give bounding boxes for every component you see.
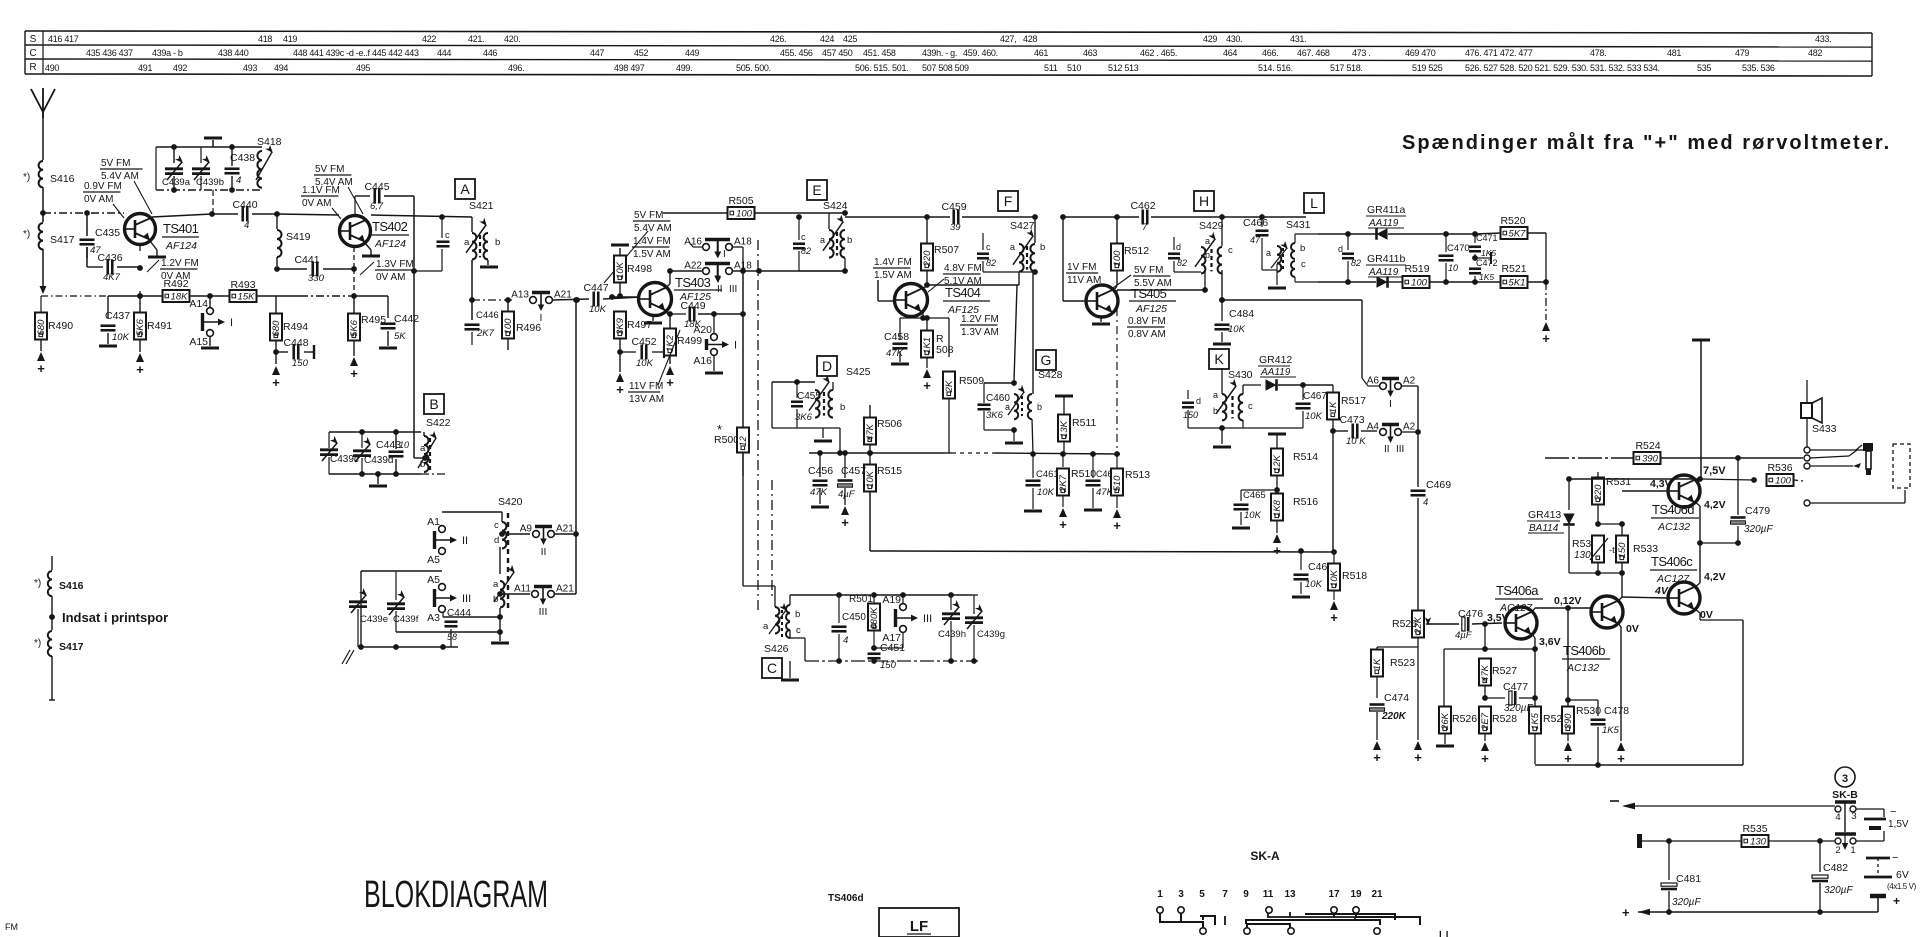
ground below C474 xyxy=(1373,741,1381,750)
svg-text:A6: A6 xyxy=(1367,376,1380,387)
svg-text:0V: 0V xyxy=(1700,609,1713,621)
wire S425 secondary to TS404 path xyxy=(832,382,834,390)
svg-text:R505: R505 xyxy=(728,195,753,207)
svg-text:C439h: C439h xyxy=(938,629,966,640)
capacitor C481 electrolytic xyxy=(1668,841,1670,880)
C460 loop bottom xyxy=(984,429,1014,431)
svg-text:AA119: AA119 xyxy=(1368,218,1399,229)
jack contact mid xyxy=(1804,455,1810,461)
wire F to TS405 base xyxy=(1062,217,1064,301)
node R495 top xyxy=(351,293,357,299)
box C xyxy=(762,658,782,678)
resistor R516 xyxy=(1271,494,1283,521)
svg-text:TS402: TS402 xyxy=(372,219,408,234)
capacitor C444 xyxy=(442,612,444,617)
svg-text:517 518.: 517 518. xyxy=(1330,63,1363,73)
capacitor C482 electrolytic xyxy=(1819,841,1821,872)
svg-text:R506: R506 xyxy=(877,418,902,430)
resistor R526 xyxy=(1439,707,1451,734)
svg-text:A21: A21 xyxy=(556,524,574,535)
ground below TS406b emitter xyxy=(1617,742,1625,751)
svg-text:C472: C472 xyxy=(1476,258,1498,268)
svg-text:496.: 496. xyxy=(508,63,524,73)
svg-text:a: a xyxy=(763,621,769,632)
resistor R507 xyxy=(926,217,928,243)
svg-text:c: c xyxy=(796,625,801,636)
node C449 out xyxy=(711,311,717,317)
svg-text:1: 1 xyxy=(1157,889,1163,900)
node TS403 emitter branch xyxy=(664,312,670,314)
svg-text:429: 429 xyxy=(1203,34,1217,44)
svg-text:A21: A21 xyxy=(556,584,574,595)
resistor R521 xyxy=(1501,276,1528,288)
transistor TS403 xyxy=(639,283,672,316)
box K xyxy=(1209,349,1229,369)
power rail top bar xyxy=(1692,339,1710,342)
svg-text:S425: S425 xyxy=(846,366,871,378)
capacitor C469 xyxy=(1417,432,1419,487)
switch SK-B bar upper xyxy=(1835,800,1856,803)
svg-text:C484: C484 xyxy=(1229,308,1254,320)
svg-text:2K7: 2K7 xyxy=(476,328,495,339)
svg-text:4K7: 4K7 xyxy=(103,272,121,283)
transformer S431 xyxy=(1277,246,1281,272)
resistor R509 xyxy=(948,318,950,357)
transformer S429 xyxy=(1201,247,1205,273)
svg-text:C457: C457 xyxy=(841,465,866,477)
svg-text:a: a xyxy=(820,235,825,245)
svg-text:c: c xyxy=(1228,245,1233,256)
svg-text:3,6V: 3,6V xyxy=(1539,636,1561,648)
svg-text:47K: 47K xyxy=(886,348,904,359)
svg-text:2E7: 2E7 xyxy=(1480,712,1491,731)
svg-text:b: b xyxy=(1037,402,1042,412)
svg-text:A13: A13 xyxy=(511,290,529,301)
svg-text:4µF: 4µF xyxy=(838,489,856,500)
box G xyxy=(1036,350,1056,370)
svg-text:C449: C449 xyxy=(680,300,705,312)
resistor R528 xyxy=(1479,707,1491,734)
svg-text:+: + xyxy=(1273,543,1281,558)
svg-text:100: 100 xyxy=(503,318,514,335)
svg-text:A22: A22 xyxy=(684,261,702,272)
svg-text:5: 5 xyxy=(1199,889,1205,900)
svg-text:0.8V AM: 0.8V AM xyxy=(1128,329,1166,340)
coil S416 sidebar xyxy=(51,556,53,570)
wire F rail to TS404 xyxy=(877,240,879,301)
svg-text:47K: 47K xyxy=(1480,664,1491,682)
wire R490 to bias line xyxy=(41,295,108,297)
wire A1 to S420 c xyxy=(442,511,502,513)
box B xyxy=(424,394,444,414)
svg-text:b: b xyxy=(847,235,852,246)
transistor TS406c xyxy=(1668,582,1700,614)
variable capacitor C439e xyxy=(357,571,359,598)
svg-text:220: 220 xyxy=(1593,484,1604,502)
capacitor C460 xyxy=(983,383,985,403)
svg-text:507 508 509: 507 508 509 xyxy=(922,63,969,73)
svg-text:448 441 439c -d -e..f 445 442: 448 441 439c -d -e..f 445 442 443 xyxy=(293,48,419,58)
box D xyxy=(817,356,837,376)
svg-text:+: + xyxy=(923,378,931,393)
wire S421 to A13 switch xyxy=(472,299,515,301)
svg-text:4: 4 xyxy=(1423,497,1428,508)
svg-text:R518: R518 xyxy=(1342,570,1367,582)
capacitor C443 xyxy=(395,432,397,449)
switch A6 A2 xyxy=(1380,383,1387,390)
svg-text:AA119: AA119 xyxy=(1260,367,1291,378)
svg-text:C478: C478 xyxy=(1604,705,1629,717)
svg-text:c: c xyxy=(986,242,991,252)
capacitor C464 d xyxy=(1173,237,1175,250)
transistor TS406a xyxy=(1505,607,1537,639)
svg-text:A18: A18 xyxy=(734,237,752,248)
svg-text:479: 479 xyxy=(1735,48,1749,58)
wire H transformer stub xyxy=(1200,217,1202,246)
svg-text:+: + xyxy=(1330,610,1338,625)
svg-text:c: c xyxy=(1301,259,1306,270)
S431 wiring xyxy=(1261,256,1263,270)
resistor R536 xyxy=(1700,479,1712,480)
svg-text:+: + xyxy=(272,375,280,390)
resistor R513 xyxy=(1111,469,1123,496)
capacitor C465 xyxy=(1241,489,1277,491)
svg-text:15K: 15K xyxy=(238,291,256,302)
wire S418 group to TS401 collector xyxy=(212,190,214,214)
svg-text:I: I xyxy=(1389,398,1392,410)
wire TS404 base from C459 xyxy=(877,240,879,280)
capacitor C452 xyxy=(620,351,636,353)
svg-text:82: 82 xyxy=(1177,258,1187,268)
node E bottom to divider xyxy=(733,270,845,272)
svg-text:11V FM: 11V FM xyxy=(629,381,663,392)
tuned circuit C460 top xyxy=(984,382,1014,384)
svg-text:S428: S428 xyxy=(1038,369,1063,381)
svg-text:R525: R525 xyxy=(1392,618,1417,630)
svg-text:10K: 10K xyxy=(1305,579,1323,590)
svg-text:a: a xyxy=(1266,248,1271,258)
capacitor C484 xyxy=(1221,300,1223,320)
svg-text:5V FM: 5V FM xyxy=(1134,265,1163,276)
wire S427 b down to S428 b xyxy=(1032,272,1034,394)
svg-text:C440: C440 xyxy=(232,199,257,211)
wire to C444 A3 column xyxy=(443,616,500,618)
svg-text:C481: C481 xyxy=(1676,873,1701,885)
svg-text:418: 418 xyxy=(258,34,272,44)
svg-text:a: a xyxy=(1213,390,1218,400)
wire D to R506 rail xyxy=(839,428,841,453)
ground below R497 xyxy=(619,352,621,372)
svg-text:GR412: GR412 xyxy=(1259,354,1292,366)
ground below R525 xyxy=(1414,741,1422,750)
S430 bottom xyxy=(1188,427,1243,429)
ground TS401 emitter xyxy=(150,241,157,250)
svg-text:+: + xyxy=(37,361,45,376)
svg-text:A5: A5 xyxy=(427,554,440,566)
svg-text:TS401: TS401 xyxy=(163,221,199,236)
wire rail up to bias line xyxy=(575,300,577,534)
svg-text:1K8: 1K8 xyxy=(1272,499,1283,517)
svg-text:12K: 12K xyxy=(1272,454,1283,472)
svg-text:512 513: 512 513 xyxy=(1108,63,1139,73)
svg-text:A: A xyxy=(460,181,470,197)
svg-text:10K: 10K xyxy=(1037,487,1055,498)
variable capacitor C439d xyxy=(361,432,363,448)
svg-text:TS406a: TS406a xyxy=(1496,583,1539,598)
wire R514 bus xyxy=(1332,431,1334,552)
capacitor C462 xyxy=(1141,210,1144,225)
svg-text:0.9V FM: 0.9V FM xyxy=(84,181,122,192)
wire C445 branch xyxy=(354,196,356,215)
svg-text:C436: C436 xyxy=(97,252,122,264)
resistor R499 xyxy=(669,314,671,329)
capacitor C458 xyxy=(899,318,901,340)
svg-text:R527: R527 xyxy=(1492,665,1517,677)
svg-text:S418: S418 xyxy=(257,136,282,148)
svg-text:+: + xyxy=(1481,751,1489,766)
svg-text:R507: R507 xyxy=(934,244,959,256)
S425 bottom xyxy=(772,427,840,429)
capacitor C463 xyxy=(1092,454,1094,478)
svg-text:1.5V AM: 1.5V AM xyxy=(874,270,912,281)
jack springs xyxy=(1810,449,1872,451)
node S420 tap to A9 xyxy=(499,531,505,537)
resistor R505 xyxy=(728,207,755,219)
svg-text:C461: C461 xyxy=(1036,469,1059,480)
wire F cap link xyxy=(982,233,984,237)
wire C435 to C436 xyxy=(86,247,88,267)
svg-text:490: 490 xyxy=(45,63,59,73)
svg-text:SK-B: SK-B xyxy=(1832,789,1858,801)
node C447 left xyxy=(574,297,580,303)
svg-text:AC127: AC127 xyxy=(1499,602,1533,614)
svg-text:449: 449 xyxy=(685,48,699,58)
svg-text:466.: 466. xyxy=(1262,48,1278,58)
wire S420c tap to A9 switch xyxy=(506,533,530,535)
svg-text:A2: A2 xyxy=(1403,422,1416,433)
svg-text:A2: A2 xyxy=(1403,376,1416,387)
svg-text:R535: R535 xyxy=(1742,823,1767,835)
svg-text:473 .: 473 . xyxy=(1352,48,1371,58)
svg-text:b: b xyxy=(1205,250,1210,260)
svg-text:526. 527 528. 520 521. 529. 53: 526. 527 528. 520 521. 529. 530. xyxy=(1465,63,1588,73)
resistor R531 xyxy=(1597,472,1599,477)
svg-text:10K: 10K xyxy=(1244,510,1262,521)
svg-text:d: d xyxy=(1176,242,1181,252)
svg-text:100: 100 xyxy=(736,208,753,219)
svg-text:*): *) xyxy=(34,578,41,589)
svg-text:463: 463 xyxy=(1083,48,1097,58)
transistor TS405 xyxy=(1086,285,1118,317)
switch A22 A18 xyxy=(703,268,710,275)
capacitor C440 xyxy=(212,213,238,215)
svg-text:7: 7 xyxy=(1142,222,1148,233)
ground S421 b winding xyxy=(487,260,489,265)
wire emitter bias row xyxy=(354,295,388,297)
switch A1 A5 xyxy=(439,526,446,533)
capacitor C478 xyxy=(1568,706,1598,708)
svg-text:a: a xyxy=(420,443,426,454)
svg-text:13V AM: 13V AM xyxy=(629,394,664,405)
wire R525 bottom xyxy=(1417,637,1419,647)
svg-text:C447: C447 xyxy=(583,282,608,294)
wire TS406d base xyxy=(1622,490,1668,492)
transistor TS404 xyxy=(895,284,928,317)
svg-text:422: 422 xyxy=(422,34,436,44)
volume line xyxy=(1303,428,1333,431)
ground below R521 xyxy=(1542,322,1550,331)
wire H out long rail xyxy=(1222,299,1362,301)
svg-text:AC127: AC127 xyxy=(1656,573,1690,585)
svg-text:82: 82 xyxy=(1351,258,1361,268)
svg-text:2K7: 2K7 xyxy=(1058,474,1069,493)
svg-text:508: 508 xyxy=(936,344,954,356)
capacitor C435 xyxy=(86,213,88,236)
svg-text:+: + xyxy=(1893,894,1900,908)
wire C437 column xyxy=(107,296,109,318)
wire H to L rail xyxy=(1222,216,1306,218)
svg-text:GR411b: GR411b xyxy=(1367,253,1405,265)
svg-text:S424: S424 xyxy=(823,200,848,212)
svg-text:S416: S416 xyxy=(59,580,84,592)
resistor R530 xyxy=(1567,608,1569,707)
svg-text:−: − xyxy=(1890,806,1896,818)
svg-text:b: b xyxy=(840,402,845,413)
svg-text:435 436 437: 435 436 437 xyxy=(86,48,133,58)
wire C447 to TS403 base xyxy=(612,296,638,298)
slash marks C439e xyxy=(342,650,350,664)
svg-text:a: a xyxy=(1010,242,1015,252)
svg-text:+: + xyxy=(1542,331,1550,346)
wire R531 top rail xyxy=(1569,478,1700,480)
resistor R533 xyxy=(1621,524,1623,536)
coil S420 a b xyxy=(500,581,504,607)
transformer S428 xyxy=(1014,394,1018,419)
wire antenna to TS401 base xyxy=(43,212,124,214)
wire rail F to C462 xyxy=(1063,216,1139,218)
svg-text:461: 461 xyxy=(1034,48,1048,58)
capacitor C456 xyxy=(819,453,821,477)
svg-text:320µF: 320µF xyxy=(1744,524,1773,535)
svg-text:11: 11 xyxy=(1263,889,1274,900)
svg-text:III: III xyxy=(462,593,471,605)
svg-text:4,2V: 4,2V xyxy=(1704,499,1726,511)
svg-text:47K: 47K xyxy=(865,423,876,441)
wire speaker to jack contacts xyxy=(1806,418,1808,447)
capacitor C468 xyxy=(1300,551,1302,570)
svg-text:A20: A20 xyxy=(693,324,712,336)
svg-text:1K1: 1K1 xyxy=(922,337,933,354)
speaker S433 xyxy=(1801,403,1812,418)
svg-text:C441: C441 xyxy=(294,254,319,266)
resistor R510 xyxy=(1062,454,1064,467)
capacitor C455 xyxy=(796,382,798,398)
svg-text:1.3V FM: 1.3V FM xyxy=(376,259,414,270)
svg-text:0V AM: 0V AM xyxy=(302,198,331,209)
svg-text:4V: 4V xyxy=(1654,585,1669,597)
svg-text:451. 458: 451. 458 xyxy=(863,48,896,58)
wire H rail corner to A6 xyxy=(1361,300,1363,378)
wire TS402 collector to S421 xyxy=(371,215,472,217)
svg-text:10K: 10K xyxy=(636,358,654,369)
jack contact top xyxy=(1804,447,1810,453)
svg-text:419: 419 xyxy=(283,34,297,44)
svg-text:5.5V AM: 5.5V AM xyxy=(1134,278,1172,289)
svg-text:c: c xyxy=(494,520,499,531)
svg-text:82: 82 xyxy=(801,246,811,256)
capacitor C448 xyxy=(276,351,288,353)
variable capacitor C439h xyxy=(950,595,952,610)
svg-text:A4: A4 xyxy=(1367,422,1380,433)
svg-text:*): *) xyxy=(23,172,30,183)
variable capacitor C439f xyxy=(395,571,397,600)
svg-text:10: 10 xyxy=(399,440,409,450)
wire TS406b emitter xyxy=(1618,623,1621,627)
svg-text:0V AM: 0V AM xyxy=(84,194,113,205)
svg-text:d: d xyxy=(1196,396,1201,406)
svg-text:II: II xyxy=(462,535,468,547)
ground below R513 xyxy=(1113,509,1121,518)
svg-text:492: 492 xyxy=(173,63,187,73)
svg-text:a: a xyxy=(493,579,499,590)
variable capacitor C439g xyxy=(973,595,975,614)
ground below R510 xyxy=(1059,508,1067,517)
svg-text:R496: R496 xyxy=(516,322,541,334)
svg-text:455. 456: 455. 456 xyxy=(780,48,813,58)
svg-text:Spændinger målt fra "+" med rø: Spændinger målt fra "+" med rørvoltmeter… xyxy=(1402,131,1891,154)
ground below R490 xyxy=(37,352,45,361)
coil S417 sidebar xyxy=(48,631,52,656)
variable capacitor C439a xyxy=(173,147,175,163)
wire TS401 emitter column xyxy=(139,245,141,296)
transistor TS406d xyxy=(1668,475,1700,507)
svg-text:476. 471 472. 477: 476. 471 472. 477 xyxy=(1465,48,1533,58)
svg-text:III: III xyxy=(923,613,932,625)
svg-text:320µF: 320µF xyxy=(1824,885,1853,896)
svg-text:1K5: 1K5 xyxy=(1479,272,1494,282)
svg-text:d: d xyxy=(494,535,499,546)
svg-text:420.: 420. xyxy=(504,34,520,44)
wire TS406c collector to output xyxy=(1695,583,1700,587)
svg-text:A14: A14 xyxy=(189,298,208,310)
dash-dot divider S424 to S426 xyxy=(771,480,773,598)
oscillator rail xyxy=(839,594,972,596)
svg-text:426.: 426. xyxy=(770,34,786,44)
svg-text:220K: 220K xyxy=(1381,711,1407,722)
svg-text:10K: 10K xyxy=(1228,324,1246,335)
svg-text:A19: A19 xyxy=(882,594,901,606)
svg-text:130: 130 xyxy=(1574,550,1591,561)
svg-text:C458: C458 xyxy=(884,331,909,343)
speaker feed rail xyxy=(1545,457,1634,459)
svg-text:R526: R526 xyxy=(1452,713,1477,725)
battery cell 1.5V xyxy=(1852,812,1854,817)
svg-text:TS406b: TS406b xyxy=(1563,643,1605,658)
capacitor C450 xyxy=(838,595,840,623)
svg-text:R521: R521 xyxy=(1501,263,1526,275)
wire to ground arrow xyxy=(1545,282,1547,320)
S426 wiring xyxy=(774,600,776,607)
svg-text:LF: LF xyxy=(910,918,928,935)
transformer S425 xyxy=(772,381,815,383)
svg-text:1K: 1K xyxy=(1328,401,1339,413)
svg-text:1,5V: 1,5V xyxy=(1888,819,1909,830)
svg-text:R494: R494 xyxy=(283,321,308,333)
wire base TS406b xyxy=(1568,607,1591,609)
svg-text:680: 680 xyxy=(271,320,282,337)
svg-text:C446: C446 xyxy=(476,310,499,321)
svg-text:S419: S419 xyxy=(286,231,311,243)
